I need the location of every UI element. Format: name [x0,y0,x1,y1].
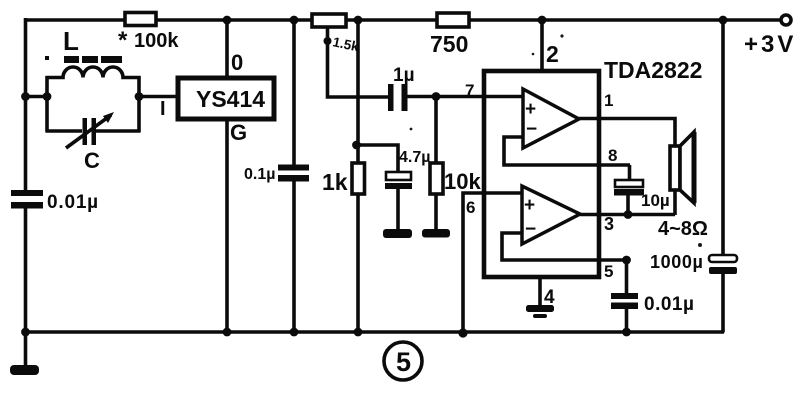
label pin 4 [544,287,555,308]
label 1000u [650,252,703,272]
svg-text:0.1µ: 0.1µ [244,166,275,183]
svg-text:C: C [84,148,100,173]
svg-text:5: 5 [396,347,411,377]
label YS414 [196,86,265,112]
wire +3V branch to 1000u [721,19,725,333]
wire U1b feedback to pin 5 [502,233,627,260]
svg-text:8: 8 [608,146,617,165]
label 1k [322,169,348,195]
label pin 0 [231,50,243,75]
wire tank to left rail [24,95,47,99]
capacitor C 0.01u (right) wire [625,260,629,331]
wire 1.5k tap down and right to 1u [328,27,391,97]
svg-text:3: 3 [604,214,614,234]
terminal +3V (open circle) [781,15,791,25]
label 750 [430,31,468,57]
svg-text:10µ: 10µ [641,191,670,210]
resistor R 1.5k [312,14,346,27]
node dot tank left [43,92,52,101]
wire pin 3 output to speaker [580,190,675,215]
op-amp U1b triangle [522,186,580,244]
capacitor C 10u plates [614,180,644,196]
label L [63,26,79,56]
svg-text:4: 4 [544,287,555,308]
wire bottom ground rail [24,330,724,334]
node dot left wire [21,92,30,101]
ground (pin 4) [526,305,554,318]
node dot top rail at 0.1u [290,16,299,25]
label 1.5k [324,34,361,54]
svg-text:TDA2822: TDA2822 [604,57,702,83]
svg-text:1k: 1k [322,169,348,195]
label pin 7 [465,81,474,100]
wire 1u to pin7 [407,95,523,99]
IC YS414 box [178,78,274,119]
label U1b minus [525,219,536,240]
label pin 2 [546,41,559,67]
label *100k [118,27,179,54]
IC U1 TDA2822 box [484,71,599,277]
wire left vertical [24,18,28,332]
capacitor C 1000u plates [709,255,737,274]
node dot top rail at 1k [354,16,363,25]
svg-text:4~8Ω: 4~8Ω [658,218,708,240]
svg-text:G: G [230,120,247,145]
ground (bottom-left) [10,332,39,375]
label +3V [744,31,796,58]
label 0.1u [244,166,275,183]
inductor L tank: left side [45,76,49,132]
label 4.7u [399,149,430,166]
label 0.01u left [47,192,99,213]
wire 1k to 4.7u [357,145,399,173]
label pin 8 [608,146,617,165]
resistor R 10k body [430,163,443,194]
svg-text:+: + [525,99,536,120]
capacitor C 0.1u branch wire [292,19,296,331]
node dot 1k at 4.7u tap [352,141,361,150]
node dot G at bottom rail [223,328,232,337]
svg-text:YS414: YS414 [196,86,265,112]
label U1b plus [524,195,535,216]
svg-text:0.01µ: 0.01µ [644,294,694,315]
op-amp U1a triangle [523,89,579,148]
node dot tank right [135,92,144,101]
label TDA2822 [604,57,702,83]
wire 10u to pin 3 line [626,195,630,215]
resistor R 750 [437,13,469,27]
wire YS414 pin G to bottom rail [225,119,229,331]
label figure 5 [396,347,411,377]
capacitor C 1u plates [388,84,408,111]
node dot pin7 wire at 10k [432,92,441,101]
svg-text:*: * [118,27,128,54]
svg-text:0: 0 [231,50,243,75]
figure number 5 [384,342,422,380]
svg-text:5: 5 [604,262,613,281]
svg-text:I: I [160,98,166,120]
svg-text:L: L [63,26,79,56]
label C [84,148,100,173]
label pin 6 [466,198,475,217]
label 4~8 ohm [658,218,708,240]
label 10k [444,169,481,194]
wire pin 2 to rail [540,19,544,71]
resistor R 100k [125,13,156,26]
capacitor C (variable) plates [46,118,141,145]
wire pin 6 input [463,193,522,331]
label pin 5 [604,262,613,281]
label pin 3 [604,214,614,234]
svg-text:1: 1 [604,91,613,110]
svg-text:+3V: +3V [744,31,796,58]
wire pin 4 to ground [538,277,542,306]
node dot pin6 at bottom rail [458,328,467,337]
scan specks [410,34,702,247]
label 1u [393,65,415,86]
node dot top rail at YS414 pin0 [223,16,232,25]
label coil spec (tiny illegible text) [45,56,122,63]
svg-text:2: 2 [546,41,559,67]
label pin G [230,120,247,145]
capacitor C 0.01u (left) [11,190,43,209]
node dot bottom-left corner [21,328,30,337]
capacitor C arrow [66,112,114,148]
svg-text:750: 750 [430,31,468,57]
wire top +V rail [24,18,787,22]
speaker cone [680,132,694,203]
label 0.01u right [644,294,694,315]
label U1a minus [526,119,537,140]
wire 4.7u to ground [396,189,400,230]
svg-text:7: 7 [465,81,474,100]
svg-text:4.7µ: 4.7µ [399,149,430,166]
resistor R 10k branch wire [434,96,438,230]
node dot 10u / pin3 [624,210,633,219]
inductor L coil [46,67,141,78]
capacitor C 4.7u plates [385,172,412,189]
wire tank to YS414 input [139,95,177,99]
svg-text:6: 6 [466,198,475,217]
node dot 0.1u at bottom rail [290,328,299,337]
ground (4.7u) [383,229,412,238]
label pin I [160,98,166,120]
svg-text:0.01µ: 0.01µ [47,192,99,213]
node dot pin 5 corner [622,256,631,265]
inductor L tank: right side [137,76,141,132]
label U1a plus [525,99,536,120]
wire YS414 pin 0 to rail [225,19,229,78]
label 10u [641,191,670,210]
wire pin 1 output to speaker [579,119,675,148]
node dot 0.01u at bottom rail [622,328,631,337]
capacitor C 10u wire [628,165,632,181]
node dot 1k at bottom rail [354,328,363,337]
svg-text:100k: 100k [134,30,179,52]
svg-text:−: − [526,119,537,140]
svg-text:1000µ: 1000µ [650,252,703,272]
capacitor C 0.1u plates [278,165,309,182]
resistor R 1k branch wire [356,19,360,331]
wire U1a feedback to pin 8 [504,137,630,165]
capacitor C 0.01u right plates [611,293,638,309]
label pin 1 [604,91,613,110]
node dot top rail at output branch [719,16,728,25]
svg-text:+: + [524,195,535,216]
ground (10k) [422,229,450,238]
resistor R 1k body [352,163,365,194]
svg-text:1µ: 1µ [393,65,415,86]
svg-text:−: − [525,219,536,240]
node dot top rail at pin2 [538,16,547,25]
speaker driver [670,146,680,190]
svg-text:10k: 10k [444,169,481,194]
